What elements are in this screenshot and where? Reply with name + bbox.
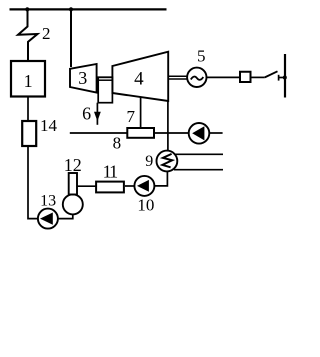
svg-text:4: 4 [134, 69, 144, 90]
box 11 [96, 182, 124, 193]
transformer square [240, 72, 251, 82]
svg-text:2: 2 [42, 24, 51, 43]
top bus wire [10, 8, 167, 10]
heater stub line upper [175, 153, 223, 155]
svg-text:6: 6 [82, 104, 91, 124]
busbar junction dot [283, 76, 287, 80]
pump 13 [38, 209, 58, 229]
wire pump13 to deaerator12 [58, 215, 73, 219]
svg-text:14: 14 [40, 116, 58, 135]
svg-text:12: 12 [64, 155, 82, 175]
wire square to switch [252, 76, 265, 78]
condensate stub wire [209, 132, 222, 134]
condenser box 8 [127, 128, 154, 138]
shaft 3-4 upper line [97, 76, 113, 78]
switch blade [265, 71, 278, 77]
wire box1 to box14 [27, 98, 29, 121]
shaft 3-4 lower line [97, 79, 113, 81]
shaft 4-generator lower line [168, 78, 187, 80]
exhaust line with arrow 6 [94, 103, 101, 125]
wire box8 to condensate pump [155, 132, 189, 134]
svg-text:9: 9 [145, 153, 153, 170]
svg-text:1: 1 [24, 71, 33, 91]
wire generator to transformer [207, 76, 240, 78]
heater 9 [157, 151, 178, 172]
wire heater9 to turbine4 [167, 101, 169, 151]
steam wire bus to turbine3 [70, 9, 72, 67]
wire left of box 8 [70, 132, 128, 134]
boiler box 1 [11, 61, 45, 97]
svg-text:13: 13 [40, 192, 56, 209]
svg-text:5: 5 [197, 47, 206, 66]
turbine 4 [112, 52, 168, 101]
junction dot B [69, 7, 73, 11]
extraction line 7 [140, 97, 142, 127]
svg-text:7: 7 [127, 107, 136, 126]
svg-text:8: 8 [113, 134, 122, 153]
heater stub line lower [174, 169, 223, 171]
busbar [284, 54, 286, 98]
condensate pump [189, 123, 210, 144]
wire box14 to pump13 [28, 147, 37, 219]
wire box11 to pump10 [125, 185, 134, 187]
crossover pipe box [98, 77, 112, 103]
svg-text:10: 10 [137, 196, 154, 215]
svg-text:3: 3 [78, 68, 87, 88]
wire deaerator12 to box11 [77, 185, 96, 187]
junction dot A [25, 7, 29, 11]
wire tick to busbar [279, 77, 285, 79]
generator 5 [187, 68, 206, 87]
economizer box 14 [22, 121, 36, 146]
shaft 4-generator upper line [168, 75, 187, 77]
svg-text:11: 11 [103, 161, 119, 181]
switch contact tick [278, 75, 280, 81]
wire pump10 to heater9 [154, 172, 167, 186]
turbine 3 [70, 64, 97, 93]
pump 10 [134, 176, 154, 196]
superheater flash symbol 2 [18, 9, 38, 60]
deaerator 12 [63, 173, 83, 214]
